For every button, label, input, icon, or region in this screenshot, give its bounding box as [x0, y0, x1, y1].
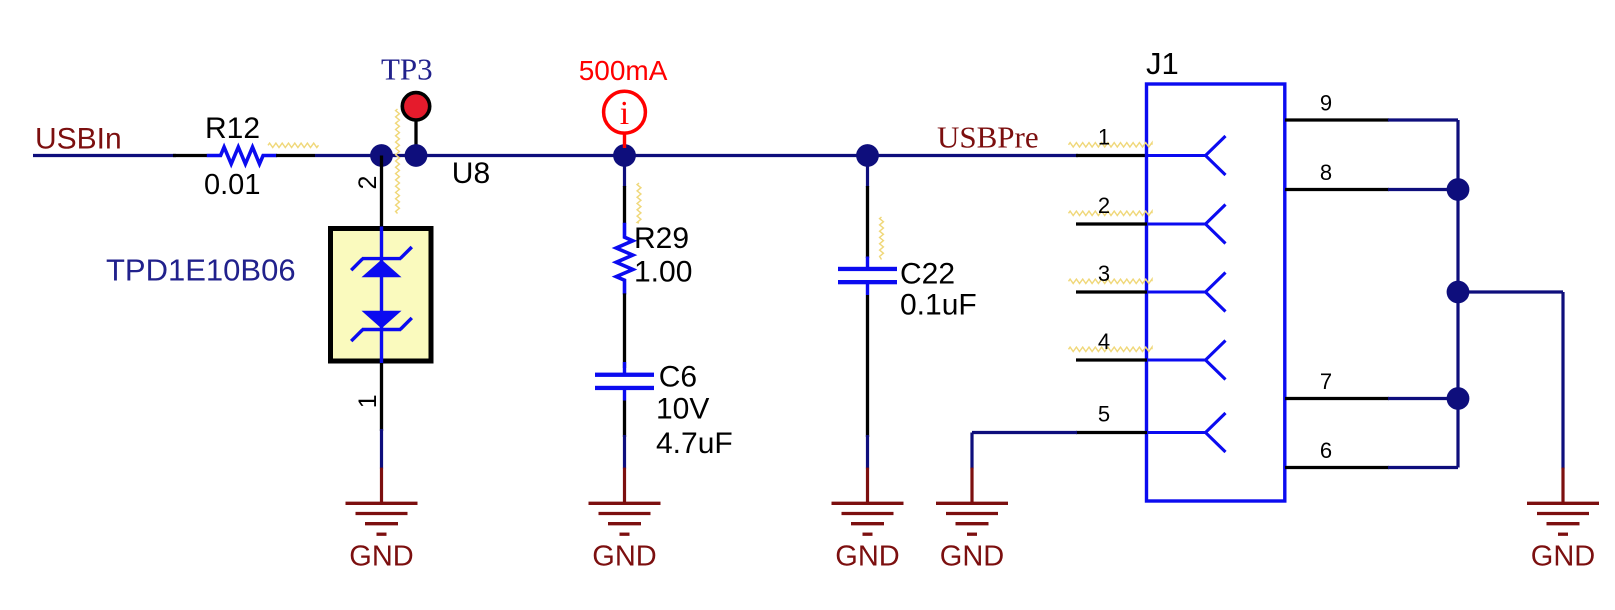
svg-text:U8: U8: [452, 157, 490, 190]
svg-text:USBIn: USBIn: [35, 122, 122, 155]
svg-text:3: 3: [1098, 261, 1110, 286]
svg-text:8: 8: [1320, 160, 1332, 185]
svg-text:6: 6: [1320, 438, 1332, 463]
svg-text:500mA: 500mA: [579, 55, 668, 86]
svg-text:GND: GND: [940, 540, 1004, 572]
svg-text:1: 1: [1098, 125, 1110, 150]
svg-text:J1: J1: [1146, 46, 1179, 81]
svg-text:TP3: TP3: [381, 52, 433, 87]
svg-text:0.01: 0.01: [204, 169, 260, 201]
svg-text:2: 2: [1098, 193, 1110, 218]
svg-text:4.7uF: 4.7uF: [656, 427, 733, 460]
svg-text:9: 9: [1320, 91, 1332, 116]
svg-text:1.00: 1.00: [634, 256, 692, 289]
svg-text:C22: C22: [900, 257, 955, 290]
svg-text:4: 4: [1098, 329, 1110, 354]
svg-text:5: 5: [1098, 402, 1110, 427]
svg-text:i: i: [620, 95, 629, 132]
svg-text:GND: GND: [835, 540, 899, 572]
svg-text:7: 7: [1320, 369, 1332, 394]
svg-text:1: 1: [354, 394, 382, 408]
svg-text:R12: R12: [205, 112, 260, 145]
svg-text:USBPre: USBPre: [937, 120, 1039, 155]
svg-text:GND: GND: [1531, 540, 1595, 572]
svg-text:TPD1E10B06: TPD1E10B06: [106, 253, 296, 288]
svg-text:GND: GND: [349, 540, 413, 572]
svg-text:GND: GND: [592, 540, 656, 572]
svg-text:0.1uF: 0.1uF: [900, 288, 977, 321]
svg-text:10V: 10V: [656, 393, 709, 426]
svg-text:R29: R29: [634, 222, 689, 255]
svg-text:C6: C6: [659, 361, 697, 394]
svg-text:2: 2: [354, 176, 382, 190]
